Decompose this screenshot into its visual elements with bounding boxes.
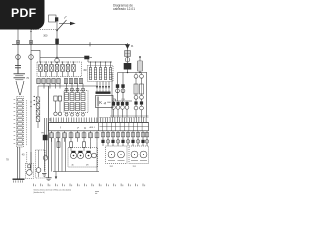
resistor R6 <box>83 142 86 148</box>
wire <box>56 44 58 57</box>
relay K6 <box>124 63 132 70</box>
connector C13 <box>140 94 144 99</box>
motor M2 <box>27 152 33 175</box>
gauge box P2 <box>129 146 149 164</box>
wire <box>30 60 32 170</box>
fuse F2 <box>29 41 32 45</box>
ECU U1 <box>96 96 114 108</box>
wire <box>17 26 19 74</box>
connector tick <box>89 42 91 46</box>
fuse box F3 <box>64 88 88 113</box>
sensor box B2 <box>36 150 46 178</box>
wire <box>112 100 132 102</box>
wire <box>90 142 92 149</box>
wire <box>88 61 112 63</box>
connector row X2 <box>37 79 83 84</box>
connector C10 <box>116 89 120 93</box>
wire <box>16 147 18 179</box>
connector row X6 <box>50 118 99 123</box>
wire <box>146 73 148 118</box>
ground <box>13 179 25 182</box>
wire <box>97 108 99 123</box>
wire <box>19 147 21 179</box>
relay row K13 <box>101 140 148 144</box>
connector X9 <box>49 15 59 22</box>
connector C16 <box>55 58 59 63</box>
resistor R4 <box>57 142 60 148</box>
node <box>34 96 35 97</box>
connector C5 <box>43 156 48 161</box>
fuse F8 <box>140 84 144 94</box>
relay K9 <box>121 84 124 88</box>
fuse F1 <box>16 41 19 45</box>
capacitor C2 <box>15 60 21 74</box>
relay box K1 <box>37 61 82 76</box>
wire <box>53 171 99 173</box>
connector strip X1 <box>14 97 24 148</box>
wire <box>52 138 66 172</box>
fuse F4 <box>125 51 131 57</box>
relay K3 <box>54 96 62 116</box>
wire <box>43 118 45 172</box>
wire <box>30 26 32 44</box>
diode chain D2 <box>36 97 40 123</box>
connector C7 <box>125 57 130 62</box>
wire <box>127 43 129 73</box>
wire <box>37 123 39 128</box>
svg-text:PDF: PDF <box>11 6 37 20</box>
wire <box>37 86 39 97</box>
connector C1 <box>16 54 21 60</box>
connector row X5 <box>100 117 149 122</box>
wire <box>117 73 119 102</box>
connector C12 <box>134 94 138 99</box>
ground <box>46 178 52 181</box>
wire <box>87 58 89 63</box>
connector row X8 <box>50 131 99 142</box>
lamp box E1 <box>68 147 98 167</box>
svg-text:cableado 12-01: cableado 12-01 <box>113 7 135 11</box>
wire <box>12 43 127 45</box>
wire <box>115 99 117 101</box>
ground <box>55 172 57 180</box>
svg-text:46: 46 <box>72 165 74 167</box>
connector C11 <box>121 89 125 93</box>
wire <box>31 29 57 31</box>
wire <box>118 72 148 74</box>
connector box X3 <box>88 61 114 81</box>
caption text <box>34 189 72 194</box>
node <box>139 56 141 58</box>
svg-text:300: 300 <box>43 35 48 38</box>
battery G1 <box>14 74 26 80</box>
relay row K12 <box>112 101 129 117</box>
node <box>30 101 31 102</box>
wire <box>26 152 28 164</box>
fuse F7 <box>134 84 138 94</box>
svg-text:K: K <box>99 100 102 105</box>
wire <box>31 49 40 51</box>
wire <box>103 131 147 146</box>
wire <box>48 86 50 178</box>
connector C15 <box>134 99 143 117</box>
node <box>56 57 57 58</box>
terminal strip X7 <box>49 123 149 131</box>
wire <box>39 50 41 62</box>
wire <box>96 82 110 92</box>
wire <box>38 85 98 87</box>
relay K10 <box>134 101 137 104</box>
header title text <box>113 3 135 11</box>
fuse F5 <box>138 57 143 73</box>
connector C3 <box>29 44 34 60</box>
wire <box>43 84 45 89</box>
connector C9 <box>140 73 144 79</box>
relay K5 <box>125 44 130 49</box>
node <box>30 28 31 29</box>
wire <box>49 118 51 121</box>
svg-text:AFS 1: AFS 1 <box>90 126 95 129</box>
connector bar X4 <box>96 92 111 94</box>
relay K11 <box>140 101 143 104</box>
svg-text:PM: PM <box>41 133 44 135</box>
PDF badge <box>0 0 45 30</box>
node <box>127 72 128 73</box>
connector C14 <box>28 165 31 168</box>
connector C8 <box>134 73 138 79</box>
ground <box>42 174 47 177</box>
sensor box B3 <box>25 164 33 179</box>
wire <box>26 100 28 146</box>
node <box>17 44 18 45</box>
wire <box>46 118 48 158</box>
svg-text:M.: M. <box>131 45 134 48</box>
gauge box P1 <box>106 146 128 164</box>
relay K7 <box>116 84 119 88</box>
fuse F6 <box>55 39 59 45</box>
switch S1 <box>56 16 75 31</box>
resistor R5 <box>70 142 73 148</box>
wire <box>20 81 24 95</box>
wire <box>135 78 137 84</box>
connector C6 <box>65 113 85 117</box>
wire <box>56 22 58 39</box>
wire <box>113 98 116 100</box>
diode D1 <box>84 56 92 60</box>
connector row X10 <box>101 133 148 137</box>
wire <box>110 115 149 117</box>
wire <box>40 57 88 59</box>
legend tick row <box>34 184 145 194</box>
wire <box>111 73 113 118</box>
wire <box>16 81 20 95</box>
relay K2 <box>43 135 47 140</box>
wire <box>96 142 98 172</box>
wire <box>122 73 124 102</box>
